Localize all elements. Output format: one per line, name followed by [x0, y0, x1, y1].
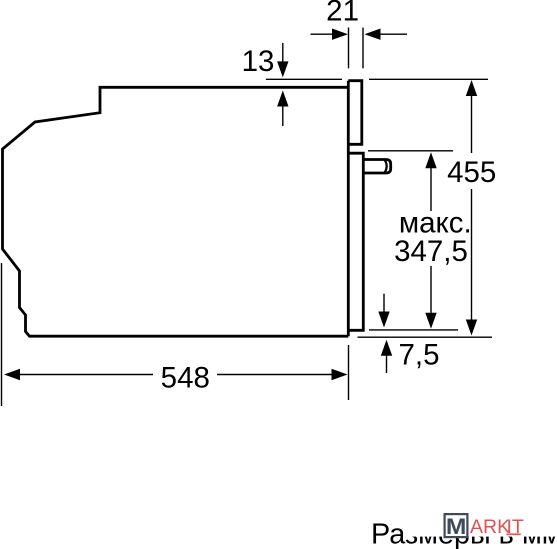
dimension 21 left arrow	[311, 29, 349, 40]
dimension 7,5 up arrow	[381, 340, 392, 373]
dimension 455 extension line (panel top, right side)	[369, 78, 488, 80]
dimension 548 left extension line	[1, 263, 3, 406]
svg-text:13: 13	[242, 45, 275, 78]
dimension 347.5 line upper segment with up arrow	[425, 152, 436, 211]
watermark white box	[406, 503, 557, 537]
dimension 21 extension line right	[362, 28, 364, 69]
oven body right edge / front frame back	[347, 81, 350, 337]
dimension 13 up arrow	[277, 91, 288, 127]
door front	[348, 153, 363, 330]
svg-text:21: 21	[326, 0, 359, 28]
watermark logo square M	[445, 514, 468, 539]
control panel (top front)	[348, 81, 362, 145]
door handle	[363, 160, 390, 174]
svg-text:M: M	[446, 514, 467, 539]
dimension 548 left arrow	[4, 369, 153, 380]
watermark IT underline	[507, 533, 521, 535]
svg-text:548: 548	[161, 362, 210, 395]
dimension 347.5 extension line (door top level)	[368, 150, 453, 152]
svg-text:347,5: 347,5	[394, 235, 468, 268]
svg-text:455: 455	[447, 156, 496, 189]
dimension 7,5 down arrow	[378, 294, 389, 328]
dimension 455 line lower segment with down arrow	[466, 189, 477, 336]
extension line door bottom level	[369, 329, 458, 331]
oven body outline	[3, 87, 349, 336]
dimension 455 line upper segment with up arrow	[466, 80, 477, 153]
svg-text:ARK: ARK	[470, 516, 510, 538]
extension line body bottom level	[358, 336, 493, 338]
dimension 13 extension line (panel top level)	[266, 78, 342, 80]
dimension 13 down arrow	[277, 43, 288, 78]
svg-text:7,5: 7,5	[398, 338, 439, 371]
dimension 21 right arrow	[365, 29, 408, 40]
dimension 347.5 line lower segment with down arrow	[425, 266, 436, 329]
dimension 21 extension line left	[348, 28, 350, 69]
dimension 548 right extension line	[348, 345, 350, 400]
dimension 548 right arrow	[217, 369, 348, 380]
